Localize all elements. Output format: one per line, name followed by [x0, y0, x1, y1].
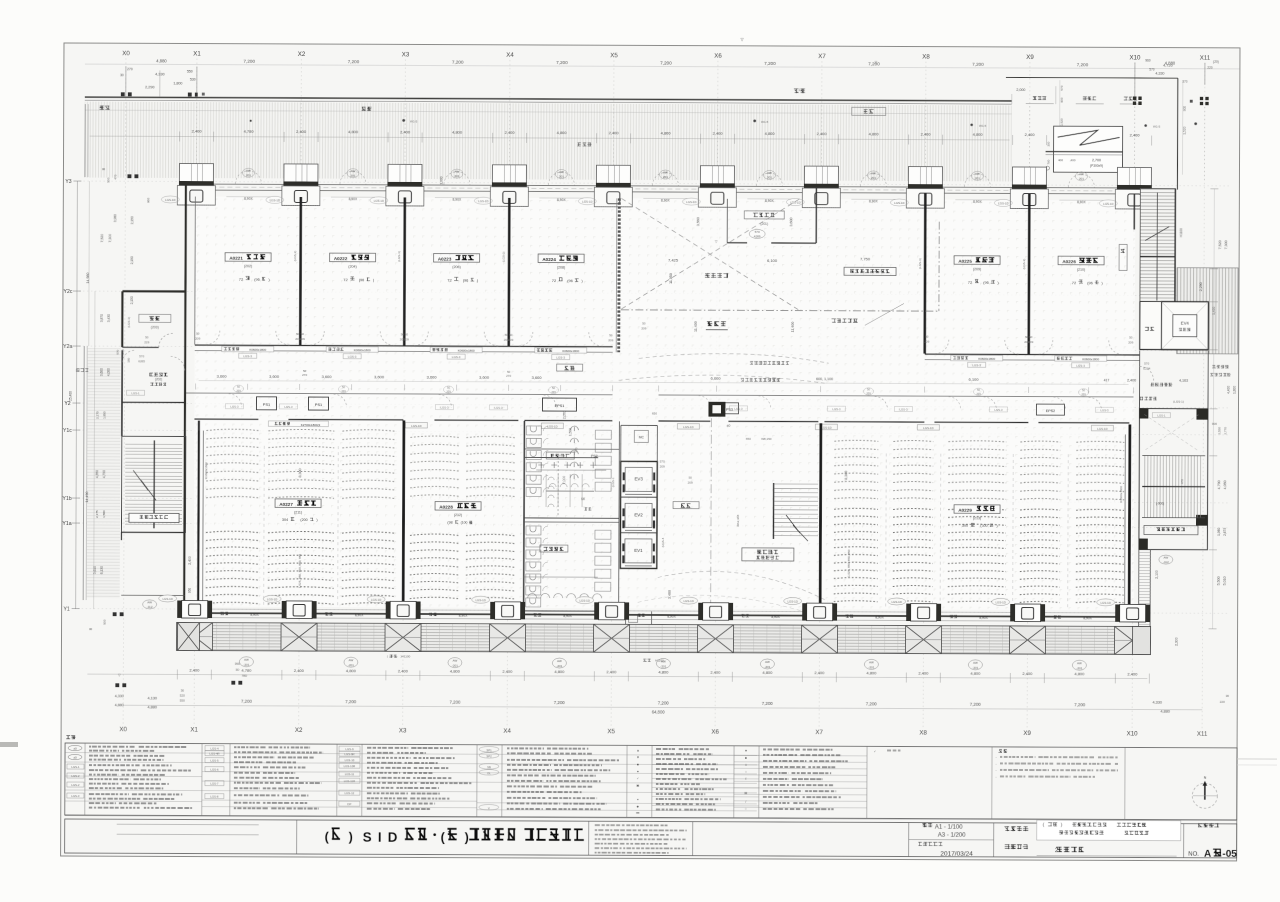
- svg-text:W1-5: W1-5: [979, 124, 987, 128]
- svg-text:(202): (202): [244, 264, 252, 268]
- north wall columns with doors: [179, 163, 213, 181]
- svg-text:30: 30: [89, 627, 93, 631]
- svg-text:±0: ±0: [727, 424, 731, 428]
- svg-text:8,90X: 8,90X: [667, 614, 676, 618]
- svg-text:LGS-1D: LGS-1D: [267, 597, 277, 601]
- svg-text:W1-5: W1-5: [761, 120, 769, 124]
- svg-text:6,600: 6,600: [711, 376, 722, 381]
- svg-text:220: 220: [1207, 66, 1213, 70]
- svg-text:304: 304: [282, 518, 288, 522]
- svg-text:6,130: 6,130: [100, 566, 104, 574]
- svg-text:50: 50: [405, 332, 409, 336]
- svg-text:-201: -201: [868, 665, 874, 669]
- svg-text:(96: (96: [1087, 281, 1093, 285]
- svg-text:2,400: 2,400: [814, 670, 825, 675]
- svg-text:209: 209: [404, 337, 409, 341]
- svg-text:LGS-10: LGS-10: [345, 758, 355, 762]
- deck dimension row: [90, 136, 1010, 140]
- svg-text:(211): (211): [294, 510, 302, 514]
- svg-text:Y2c: Y2c: [63, 289, 72, 295]
- svg-text:220: 220: [1220, 700, 1225, 704]
- classroom label A0226: [1058, 256, 1104, 265]
- bottom dimension row 1: [87, 674, 1147, 678]
- svg-text:LGS-1: LGS-1: [1157, 414, 1166, 418]
- svg-text:570: 570: [139, 354, 144, 358]
- svg-text:○: ○: [745, 770, 747, 774]
- svg-text:N: N: [1204, 776, 1207, 780]
- movable partition wall X5 (hatched): [617, 198, 621, 352]
- svg-text:▼: ▼: [636, 755, 639, 759]
- svg-text:72: 72: [447, 278, 452, 283]
- svg-text:4,780: 4,780: [241, 668, 252, 673]
- svg-text:400: 400: [1058, 158, 1063, 162]
- svg-text:(210): (210): [1077, 268, 1085, 272]
- svg-text:3,870: 3,870: [100, 314, 104, 322]
- svg-text:960: 960: [146, 198, 150, 203]
- svg-text:960: 960: [1145, 59, 1151, 63]
- svg-text:(100: (100: [461, 521, 468, 525]
- svg-text:-05: -05: [1222, 849, 1237, 860]
- svg-text:X1: X1: [190, 727, 198, 734]
- svg-text:LGS-2: LGS-2: [71, 774, 80, 778]
- svg-text:11,050: 11,050: [669, 273, 673, 284]
- svg-text:(204): (204): [348, 265, 356, 269]
- AW-201 circles bottom: [239, 657, 253, 667]
- svg-text:AW: AW: [349, 658, 354, 662]
- svg-text:30: 30: [120, 73, 124, 77]
- svg-text:570: 570: [660, 459, 665, 463]
- svg-text:4,800: 4,800: [348, 129, 359, 134]
- bench labels: [1033, 96, 1046, 100]
- svg-text:AW: AW: [1077, 661, 1082, 665]
- svg-text:1,520: 1,520: [1183, 126, 1187, 134]
- svg-text:AW: AW: [246, 169, 251, 173]
- svg-text:4,780: 4,780: [244, 129, 255, 134]
- hall A0229 east wall: [1128, 424, 1132, 616]
- svg-text:2,400: 2,400: [296, 129, 307, 134]
- svg-text:W8,150: W8,150: [761, 437, 772, 441]
- svg-text:2,150: 2,150: [130, 256, 134, 264]
- legend text bars column4: [507, 747, 544, 749]
- deck sensor dots: [250, 117, 1198, 125]
- svg-text:4,880: 4,880: [147, 705, 157, 709]
- svg-text:8,90X: 8,90X: [869, 199, 878, 203]
- svg-text:4,163: 4,163: [1179, 379, 1188, 383]
- svg-text:2,400: 2,400: [502, 669, 513, 674]
- svg-text:2,400: 2,400: [606, 669, 617, 674]
- svg-text:2,400: 2,400: [1025, 132, 1036, 137]
- svg-text:8,90X: 8,90X: [355, 613, 364, 617]
- svg-text:A0223: A0223: [438, 257, 452, 262]
- svg-text:35D: 35D: [235, 662, 241, 666]
- svg-text:X5: X5: [610, 52, 618, 59]
- svg-text:G204: G204: [1143, 367, 1151, 371]
- svg-text:・: ・: [429, 830, 440, 842]
- svg-text:4,800: 4,800: [658, 669, 669, 674]
- svg-text:3,600: 3,600: [479, 375, 490, 380]
- deck label: [577, 143, 591, 147]
- elevator door hatch marks: [623, 472, 654, 563]
- womens toilet label: [540, 545, 568, 552]
- svg-text:V: V: [488, 806, 490, 810]
- east wall of classrooms: [1133, 194, 1135, 229]
- svg-text:7,200: 7,200: [452, 60, 464, 65]
- svg-text:209: 209: [866, 391, 871, 395]
- svg-text:A0226: A0226: [1062, 259, 1076, 264]
- svg-text:650: 650: [746, 437, 751, 441]
- svg-text:(LGS-3): (LGS-3): [918, 258, 922, 269]
- svg-text:7,200: 7,200: [658, 700, 670, 705]
- corridor lower kijun label: [268, 421, 328, 427]
- svg-text:AW: AW: [765, 660, 770, 664]
- svg-text:LGS-1D: LGS-1D: [270, 198, 280, 202]
- svg-text:900: 900: [1183, 106, 1187, 112]
- svg-text:900: 900: [1060, 97, 1064, 102]
- mens toilet label: [546, 452, 574, 459]
- svg-text:LGS-3: LGS-3: [440, 406, 449, 410]
- scan artifact left edge: [0, 742, 18, 747]
- svg-text:4,800: 4,800: [869, 131, 880, 136]
- deck band top (vertical boards hatch): [84, 102, 1011, 182]
- right stair corner blocks: [1196, 409, 1208, 420]
- column X6 top: [708, 402, 725, 417]
- svg-text:EV2: EV2: [634, 512, 643, 517]
- ramp small circles: [1045, 166, 1049, 170]
- svg-text:MC: MC: [639, 435, 645, 439]
- hall label box center: [673, 502, 699, 509]
- classroom label A0225: [954, 256, 1000, 265]
- svg-text:LGS-7: LGS-7: [210, 782, 219, 786]
- svg-text:2,400: 2,400: [1127, 378, 1136, 382]
- svg-text:209: 209: [660, 464, 665, 468]
- svg-text:2,400: 2,400: [398, 668, 409, 673]
- svg-text:LGS-1D: LGS-1D: [683, 599, 693, 603]
- walkway strip right of hall: [1138, 549, 1140, 627]
- bottom deck vertical seams: [190, 623, 1146, 655]
- svg-text:2,400: 2,400: [609, 130, 620, 135]
- svg-text:EPS1: EPS1: [555, 404, 565, 408]
- hall A0229 aisle dashes: [885, 453, 888, 608]
- svg-text:50: 50: [609, 333, 613, 337]
- svg-text:±0: ±0: [73, 747, 77, 751]
- AW-112 circle right: [1159, 555, 1173, 564]
- hall A0227 aisle dashes: [263, 446, 266, 606]
- bottom dimension row 2 (7200): [123, 705, 1202, 710]
- svg-text:(LGS-1: (LGS-1: [611, 477, 615, 487]
- planting labels: [100, 106, 110, 110]
- svg-text:2,400: 2,400: [918, 671, 929, 676]
- svg-text:(LGS-4: (LGS-4: [661, 537, 665, 547]
- signature box lines: [117, 823, 259, 826]
- svg-text:X7: X7: [815, 729, 823, 736]
- elevator EV3: [625, 467, 652, 491]
- west deck hatch: [87, 348, 121, 598]
- svg-text:LGS-4: LGS-4: [210, 747, 219, 751]
- svg-text:530: 530: [190, 78, 196, 82]
- svg-text:LGS-1D: LGS-1D: [1100, 601, 1110, 605]
- svg-text:LGS-1D: LGS-1D: [821, 426, 831, 430]
- svg-text:LGS-11R: LGS-11R: [344, 779, 355, 783]
- south wall LGS-1D labels: [159, 595, 177, 602]
- svg-text:4,800: 4,800: [973, 132, 984, 137]
- EV lobby walls: [1140, 349, 1209, 351]
- north wall AW window labels: [242, 168, 254, 177]
- svg-text:1,800: 1,800: [1233, 386, 1237, 394]
- svg-text:4269: 4269: [754, 234, 761, 238]
- svg-text:4,400: 4,400: [1227, 386, 1231, 394]
- svg-text:NO.: NO.: [1188, 852, 1199, 858]
- svg-text:4,800: 4,800: [970, 671, 981, 676]
- svg-text:2,170: 2,170: [95, 411, 99, 419]
- legend text bars column5: [656, 748, 676, 750]
- svg-text:209: 209: [1081, 392, 1086, 396]
- wind lobby 1 label: [149, 373, 167, 377]
- storage room label: [139, 314, 171, 322]
- svg-text:7,200: 7,200: [554, 700, 566, 705]
- grid lines horizontal (Y axes): [78, 181, 1232, 613]
- svg-text:X9: X9: [1023, 730, 1031, 737]
- svg-text:2,400: 2,400: [710, 670, 721, 675]
- svg-text:X11: X11: [1197, 731, 1208, 738]
- hall A0227 label: [275, 499, 321, 508]
- right stair block outline: [1139, 408, 1208, 549]
- svg-text:(LGS-3): (LGS-3): [293, 251, 297, 262]
- north wall door swing arcs: [235, 171, 1094, 188]
- svg-text:6,100: 6,100: [969, 377, 980, 382]
- svg-text:4,800: 4,800: [452, 130, 463, 135]
- svg-text:X10: X10: [1127, 730, 1139, 737]
- legend text bars column6: [763, 748, 800, 750]
- elevator lobby walls above: [620, 425, 622, 461]
- PS3 shaft: [720, 403, 738, 414]
- building interior faint ceiling grid: [194, 197, 1136, 611]
- svg-text:(96: (96: [254, 278, 260, 282]
- svg-text:78D: 78D: [242, 674, 248, 678]
- deck tick marks: [180, 131, 1152, 145]
- svg-text:LGS-1D: LGS-1D: [579, 599, 589, 603]
- svg-text:(: (: [440, 830, 445, 845]
- svg-text:LGS-3: LGS-3: [556, 356, 565, 360]
- svg-text:3,600: 3,600: [532, 375, 543, 380]
- svg-text:3,560: 3,560: [696, 217, 700, 226]
- svg-text:2,400: 2,400: [817, 131, 828, 136]
- svg-text:AW: AW: [351, 169, 356, 173]
- drawing number label: [1198, 823, 1219, 827]
- svg-text:7,425: 7,425: [668, 258, 679, 263]
- svg-text:72: 72: [552, 278, 557, 283]
- svg-text:1,025, 850, 850, 850: 1,025, 850, 850, 850: [847, 549, 851, 577]
- svg-text:8,90X: 8,90X: [875, 615, 884, 619]
- svg-text:LGS-1D: LGS-1D: [995, 600, 1005, 604]
- svg-text:2,050: 2,050: [562, 411, 566, 419]
- legend table column dividers: [84, 743, 86, 815]
- svg-text:K0600x1800: K0600x1800: [249, 348, 266, 352]
- svg-text:201: 201: [871, 176, 876, 180]
- svg-text:3,600: 3,600: [374, 374, 385, 379]
- svg-text:2,100: 2,100: [1155, 570, 1159, 579]
- svg-text:■: ■: [745, 756, 747, 760]
- svg-text:X3: X3: [402, 51, 410, 58]
- svg-text:8,90X: 8,90X: [459, 613, 468, 617]
- svg-text:LGS-5: LGS-5: [210, 759, 219, 763]
- right stair label: [1144, 526, 1198, 535]
- toilet section divider wall mid: [524, 456, 598, 458]
- svg-text:2,175: 2,175: [95, 510, 99, 518]
- toilet inner partition verticals: [546, 474, 582, 507]
- terrace edge line top right: [1006, 76, 1178, 79]
- svg-text:(96: (96: [359, 278, 365, 282]
- wind lobby 2 label: [744, 211, 784, 219]
- svg-text:8,90X: 8,90X: [973, 200, 982, 204]
- svg-text:LGS-1D: LGS-1D: [582, 200, 592, 204]
- north arrow compass: [1192, 783, 1217, 808]
- svg-text:4,790: 4,790: [1217, 480, 1221, 489]
- svg-text:209: 209: [688, 481, 693, 485]
- svg-text:X3: X3: [399, 727, 407, 734]
- classroom door arcs south: [206, 331, 1123, 355]
- svg-text:X8: X8: [919, 730, 927, 737]
- svg-text:LGS-3: LGS-3: [494, 406, 503, 410]
- svg-text:2,400: 2,400: [189, 668, 200, 673]
- svg-text:LGS-3: LGS-3: [832, 407, 841, 411]
- title band frame: [65, 816, 1237, 821]
- svg-text:4,130: 4,130: [147, 696, 157, 700]
- svg-text:(LGS-1): (LGS-1): [1173, 400, 1184, 404]
- svg-text:)H1100: )H1100: [401, 654, 411, 658]
- ceiling drop line labels: [750, 361, 789, 365]
- svg-text:1,500: 1,500: [568, 428, 572, 436]
- svg-text:8,300: 8,300: [844, 471, 848, 480]
- svg-text:201: 201: [767, 175, 772, 179]
- legend text bars column2: [234, 746, 265, 748]
- svg-text:72: 72: [343, 277, 348, 282]
- svg-text:209: 209: [341, 389, 346, 393]
- svg-text:SB: SB: [487, 765, 491, 769]
- svg-text:✓: ✓: [637, 776, 640, 780]
- classroom south wall left section: [195, 345, 613, 347]
- corridor dimension row: [199, 381, 1129, 385]
- corridor circled door tags: [234, 385, 244, 392]
- ramp lower double line: [1046, 151, 1123, 153]
- right classroom partition wall X9: [1027, 194, 1030, 354]
- svg-text:3,600: 3,600: [217, 374, 228, 379]
- svg-text:14,490: 14,490: [85, 492, 89, 503]
- svg-text:-201: -201: [1076, 666, 1082, 670]
- svg-text:Y1a: Y1a: [62, 521, 71, 527]
- svg-text:2,300: 2,300: [1174, 637, 1178, 646]
- svg-text:7,000: 7,000: [562, 476, 566, 485]
- svg-text:LGS-1D: LGS-1D: [478, 199, 488, 203]
- svg-text:EV4: EV4: [1181, 321, 1190, 326]
- svg-text:EPS2: EPS2: [1046, 409, 1055, 413]
- elevator EV2: [625, 503, 652, 527]
- svg-text:3,600: 3,600: [100, 368, 104, 376]
- planting strip line: [85, 110, 1012, 114]
- student commons label: [844, 267, 896, 275]
- svg-text:X8: X8: [922, 54, 930, 61]
- toilet stalls left column: [526, 426, 542, 607]
- svg-text:6265: 6265: [138, 359, 145, 363]
- svg-text:4,000: 4,000: [107, 368, 111, 376]
- svg-text:760: 760: [1046, 159, 1050, 164]
- svg-text:570: 570: [1060, 85, 1064, 90]
- svg-text:): ): [996, 524, 997, 528]
- svg-text:209: 209: [924, 340, 929, 344]
- svg-text:LGS-10R: LGS-10R: [344, 764, 356, 768]
- svg-text:Y3: Y3: [65, 179, 71, 185]
- svg-text:7,750: 7,750: [860, 256, 871, 261]
- svg-text:AW: AW: [663, 171, 668, 175]
- west deck edge double line: [84, 104, 86, 177]
- svg-text:2,290: 2,290: [145, 85, 155, 89]
- svg-text:Y1b: Y1b: [62, 496, 71, 502]
- svg-text:209: 209: [641, 326, 646, 330]
- svg-text:K0600x1800: K0600x1800: [1082, 357, 1099, 361]
- hall ceiling dashed arcs lower: [658, 571, 828, 601]
- svg-text:50: 50: [301, 332, 305, 336]
- svg-text:W1-5: W1-5: [1153, 125, 1161, 129]
- svg-text:LGS-1D: LGS-1D: [998, 201, 1008, 205]
- legend text bars column1: [89, 746, 136, 748]
- svg-text:8,90X: 8,90X: [661, 198, 670, 202]
- svg-text:201: 201: [1079, 177, 1084, 181]
- svg-text:209: 209: [236, 389, 241, 393]
- svg-text:30: 30: [1226, 694, 1230, 698]
- entrance door arcs west: [123, 350, 185, 370]
- svg-text:/: /: [745, 800, 746, 804]
- svg-text:2,675: 2,675: [1223, 528, 1227, 536]
- void label: [705, 273, 728, 278]
- svg-text:2,150: 2,150: [130, 216, 134, 224]
- svg-text:2,700: 2,700: [1092, 158, 1101, 162]
- classroom label A0223: [434, 254, 480, 263]
- svg-text:(: (: [387, 654, 388, 658]
- svg-text:50: 50: [642, 321, 646, 325]
- svg-text:209: 209: [508, 338, 513, 342]
- southwest stair 1: [121, 436, 185, 532]
- svg-text:): ): [464, 830, 468, 845]
- svg-text:LGS-1D: LGS-1D: [686, 200, 696, 204]
- svg-text:LGS-3: LGS-3: [994, 408, 1003, 412]
- southwest below stair wall: [121, 531, 184, 533]
- svg-text:3,430: 3,430: [107, 314, 111, 322]
- svg-text:(209): (209): [973, 267, 981, 271]
- svg-text:X5: X5: [607, 728, 615, 735]
- legend symbols column1: [68, 745, 82, 750]
- svg-text:7,200: 7,200: [660, 60, 672, 65]
- svg-text:8,90X: 8,90X: [453, 198, 462, 202]
- project name box: [1037, 820, 1181, 841]
- right stair landing dashes: [1144, 415, 1198, 451]
- classroom partition wall X4: [507, 198, 510, 346]
- handrail top (deck edge): [85, 97, 1012, 101]
- svg-text:AW: AW: [244, 658, 249, 662]
- toilet urinal arcs column: [570, 426, 578, 479]
- svg-text:(212): (212): [454, 513, 462, 517]
- svg-text:LGS-3: LGS-3: [972, 363, 981, 367]
- svg-text:(-900): (-900): [1156, 502, 1165, 506]
- svg-text:2,150: 2,150: [130, 296, 134, 304]
- svg-text:LGS-1: LGS-1: [71, 765, 80, 769]
- svg-text:229: 229: [144, 340, 149, 344]
- PS1 shaft boxes: [256, 397, 276, 410]
- hall A0229 screen line east: [1124, 434, 1127, 604]
- legend table frame: [65, 743, 1237, 820]
- svg-text:2,400: 2,400: [713, 131, 724, 136]
- svg-text:4,330: 4,330: [1152, 701, 1162, 705]
- svg-text:7,520: 7,520: [1218, 240, 1222, 249]
- svg-text:LGS-9: LGS-9: [345, 747, 354, 751]
